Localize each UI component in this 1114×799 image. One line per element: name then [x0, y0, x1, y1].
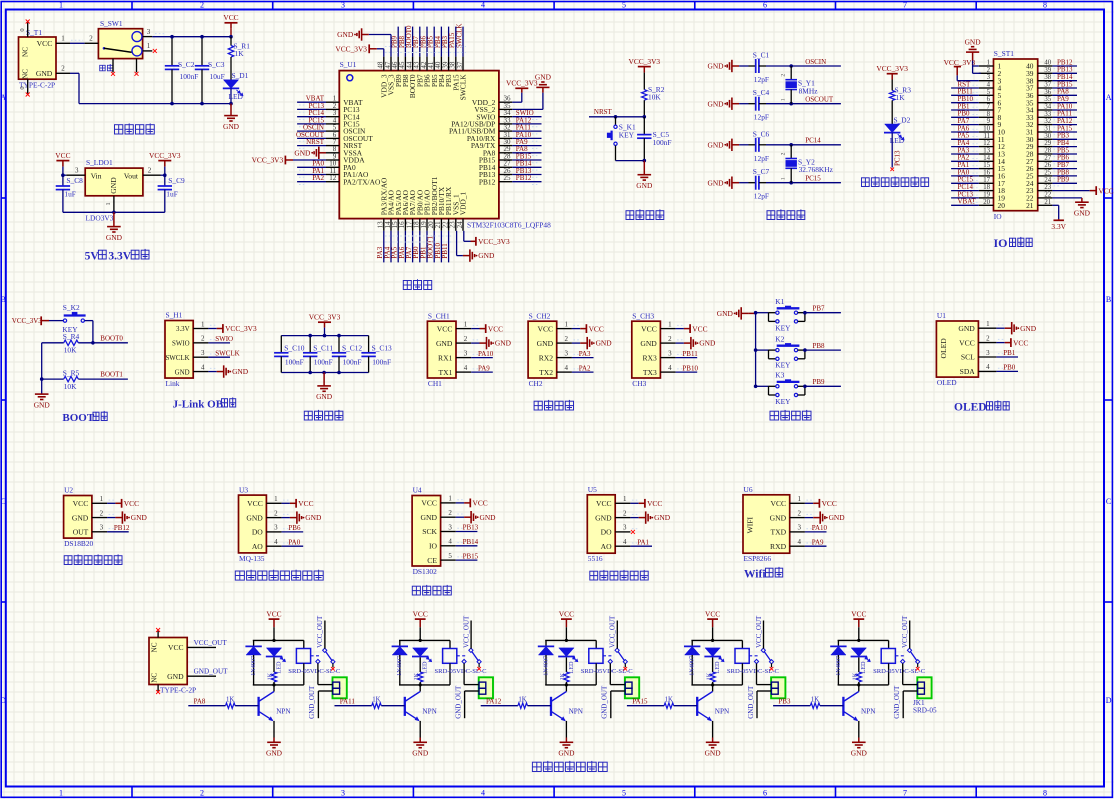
wire VCC_OUT relay 1 [324, 621, 326, 649]
wifi U6 ESP8266 [743, 495, 790, 553]
svg-text:20: 20 [998, 201, 1006, 210]
ground GND boot [35, 394, 49, 399]
svg-text:36: 36 [1044, 89, 1051, 96]
svg-text:S_CH3: S_CH3 [632, 311, 654, 320]
svg-text:VCC: VCC [298, 499, 313, 508]
U1 pin 24 VDD_1 to VCC_3V3 [463, 231, 465, 242]
title temperature module [64, 554, 122, 564]
wire filter bottom rail [281, 372, 368, 374]
ST1 pin 7 [979, 109, 994, 111]
U1 pin 19 PB1/AO [426, 219, 428, 231]
svg-text:GND: GND [305, 513, 322, 522]
svg-text:KEY: KEY [775, 397, 791, 406]
capacitor C12 100nF [338, 336, 340, 353]
svg-text:S_C2: S_C2 [178, 60, 195, 69]
svg-text:Vin: Vin [91, 171, 102, 180]
U1 pin 20 PB2/BOOT1 [433, 219, 435, 231]
svg-text:VCC: VCC [589, 324, 604, 333]
LDO1 pin 1 GND [113, 196, 115, 213]
T2 top stub [157, 631, 159, 638]
title program run indicator [862, 177, 929, 187]
U1 pin 9 VCC_3V3 VDDA [293, 159, 326, 161]
title relay control circuit [532, 761, 607, 772]
svg-text:PA9: PA9 [478, 364, 490, 372]
svg-text:10K: 10K [64, 382, 77, 391]
svg-text:1N4007: 1N4007 [689, 656, 696, 676]
svg-text:GND: GND [294, 148, 311, 157]
svg-text:BOOT1: BOOT1 [100, 371, 123, 379]
wire GND_OUT terminal lower relay 3 [611, 690, 625, 692]
capacitor C13 100nF [368, 336, 370, 353]
terminal block relay 5 [917, 677, 931, 698]
U1 pin 39 PB3 [448, 57, 450, 71]
resistor R4 10K [42, 342, 64, 344]
connector H1 J-Link OB [165, 321, 193, 379]
U1 pin 29 PA8 [499, 152, 512, 154]
svg-text:GND: GND [34, 400, 51, 409]
switch SW1 [98, 29, 142, 59]
U1 pin 1 VBAT [326, 101, 339, 103]
svg-text:S_D1: S_D1 [232, 71, 249, 80]
wire bottom rail [399, 684, 450, 686]
light sensor U5 5516 [587, 495, 615, 553]
relay coil SRD-05VDC relay 3 [595, 640, 597, 648]
svg-text:10K: 10K [648, 92, 661, 101]
title main chip [403, 279, 431, 289]
svg-text:SWCLK: SWCLK [215, 349, 240, 357]
svg-text:21: 21 [1044, 199, 1051, 206]
relay switch contacts 5 [895, 655, 905, 657]
T1 pin 1 VCC [56, 42, 70, 44]
svg-text:GND: GND [558, 749, 575, 758]
svg-text:8MHz: 8MHz [799, 86, 819, 95]
U1 pin 28 PB15 [499, 159, 512, 161]
svg-text:K2: K2 [775, 335, 784, 344]
svg-text:4: 4 [668, 364, 672, 372]
svg-text:U4: U4 [413, 486, 422, 495]
U1 pin 16 PA6/AO [404, 219, 406, 231]
resistor R3 1K [890, 90, 895, 100]
svg-text:12pF: 12pF [754, 192, 769, 201]
ST1 pin 20 [979, 204, 994, 206]
wire T1.1 to SW1.2 [70, 42, 85, 44]
svg-text:VCC_3V3: VCC_3V3 [628, 57, 660, 66]
svg-text:PA2: PA2 [312, 174, 324, 182]
capacitor C3 [201, 37, 203, 66]
svg-text:NRST: NRST [594, 108, 613, 116]
svg-text:1K: 1K [852, 672, 859, 680]
svg-text:4: 4 [481, 788, 485, 797]
svg-text:2: 2 [986, 334, 990, 342]
svg-text:GND: GND [770, 513, 787, 522]
svg-text:GND: GND [412, 749, 429, 758]
svg-text:1: 1 [59, 1, 63, 10]
svg-text:3: 3 [201, 349, 205, 357]
svg-text:PC15: PC15 [805, 175, 821, 183]
wire emitter to gnd relay 2 [419, 721, 421, 738]
ground GND power circuit [230, 104, 232, 116]
svg-text:7: 7 [987, 104, 991, 111]
svg-text:GND: GND [1074, 208, 1091, 217]
svg-text:SWCLK: SWCLK [165, 355, 189, 362]
svg-text:VCC: VCC [73, 499, 89, 508]
svg-text:1: 1 [781, 98, 787, 101]
svg-text:B: B [1, 295, 6, 304]
transistor NPN relay 2 [419, 685, 421, 692]
U1 pin 48 VDD_3 [383, 57, 385, 71]
svg-text:Link: Link [166, 379, 180, 388]
svg-text:1K: 1K [267, 672, 274, 680]
ST1 pin 17 [979, 182, 994, 184]
svg-text:GND: GND [1020, 324, 1037, 333]
svg-text:S_C10: S_C10 [284, 343, 304, 352]
capacitor C5 100nF [643, 117, 645, 135]
svg-text:1: 1 [797, 495, 801, 503]
svg-text:1N4007: 1N4007 [250, 656, 257, 676]
ground GND C4 row [732, 103, 739, 105]
svg-text:WIFI: WIFI [746, 517, 755, 534]
svg-text:1: 1 [147, 42, 151, 50]
svg-text:1: 1 [986, 320, 990, 328]
svg-text:S_U1: S_U1 [340, 60, 357, 69]
U1 pin 12 PA2/TX/AO [326, 181, 339, 183]
ground GND filter [322, 371, 326, 375]
svg-text:GND: GND [223, 122, 240, 131]
svg-text:3: 3 [623, 524, 627, 532]
svg-text:PA15: PA15 [632, 697, 648, 705]
U1 pin 43 PB7 [419, 57, 421, 71]
svg-text:12pF: 12pF [754, 113, 769, 122]
svg-text:OLED: OLED [939, 338, 948, 359]
svg-text:VCC_OUT: VCC_OUT [194, 639, 228, 647]
svg-text:U1: U1 [937, 311, 946, 320]
U1 pin 13 PA3/RX/AO [383, 219, 385, 231]
svg-text:2: 2 [781, 74, 787, 77]
svg-text:Wifi: Wifi [744, 569, 766, 581]
ST1 pin 13 [979, 153, 994, 155]
svg-text:1: 1 [987, 60, 990, 67]
transistor NPN relay 4 [712, 685, 714, 692]
resistor 1K pull relay 3 [565, 657, 567, 672]
svg-text:LDO3V3: LDO3V3 [86, 214, 114, 223]
diode 1N4007 relay 3 [545, 640, 547, 646]
svg-text:8: 8 [987, 111, 991, 118]
svg-text:OUT: OUT [73, 528, 89, 537]
svg-text:1K: 1K [896, 93, 906, 102]
svg-text:KEY: KEY [775, 361, 791, 370]
svg-text:30: 30 [1044, 133, 1051, 140]
relay coil SRD-05VDC relay 5 [888, 640, 890, 648]
svg-text:PB10: PB10 [682, 364, 698, 372]
wire terminal upper relay 4 [756, 663, 758, 684]
svg-text:VCC: VCC [488, 324, 503, 333]
svg-text:IO: IO [429, 542, 438, 551]
svg-text:VBAT: VBAT [958, 198, 977, 206]
ST1 pin 38 [1038, 80, 1053, 82]
svg-text:VCC_OUT: VCC_OUT [901, 615, 909, 648]
svg-text:VCC: VCC [770, 499, 786, 508]
svg-text:BOOT0: BOOT0 [100, 334, 123, 342]
svg-text:4: 4 [987, 82, 991, 89]
svg-text:1uF: 1uF [166, 190, 178, 199]
wire filter top rail [281, 335, 368, 337]
svg-text:S_ST1: S_ST1 [994, 49, 1014, 58]
svg-text:VCC: VCC [537, 324, 553, 333]
wire GND_OUT terminal lower relay 2 [465, 690, 479, 692]
power VCC ldo [56, 160, 69, 162]
svg-text:SDA: SDA [960, 367, 976, 376]
rtc U4 DS1302 [412, 496, 441, 567]
svg-text:34: 34 [1044, 104, 1051, 111]
svg-text:SRD-05: SRD-05 [913, 707, 937, 715]
svg-text:VCC: VCC [168, 643, 184, 652]
ST1 pin 1 [979, 65, 994, 67]
key K2 [49, 320, 63, 322]
svg-text:VCC_3V3: VCC_3V3 [876, 64, 908, 73]
resistor R5 10K [42, 378, 64, 380]
svg-text:NPN: NPN [715, 707, 730, 715]
LED relay 2 [413, 648, 428, 657]
ST1 pin 10 [979, 131, 994, 133]
svg-text:LED: LED [860, 661, 867, 674]
wire emitter to gnd relay 3 [565, 721, 567, 738]
relay switch contacts 2 [457, 655, 467, 657]
T1 pin 0 bottom stub [27, 79, 29, 93]
key K2 [756, 349, 769, 351]
U1 pin 3 PC14 [326, 116, 339, 118]
ground GND above ST1 [966, 51, 979, 53]
svg-text:4: 4 [986, 363, 990, 371]
svg-text:37: 37 [1044, 82, 1051, 89]
relay coil SRD-05VDC relay 2 [449, 640, 451, 648]
svg-text:28: 28 [1044, 148, 1051, 155]
svg-text:RXD: RXD [770, 542, 787, 551]
svg-text:2: 2 [100, 509, 104, 517]
svg-text:16: 16 [983, 169, 990, 176]
svg-text:19: 19 [983, 191, 990, 198]
svg-text:D: D [0, 696, 6, 705]
resistor base 1K relay 2 [335, 705, 372, 707]
ST1 pin 5 [979, 94, 994, 96]
svg-text:U2: U2 [64, 486, 73, 495]
U1 pin 41 PB5 [433, 57, 435, 71]
svg-text:NPN: NPN [569, 707, 584, 715]
svg-text:DS1302: DS1302 [413, 567, 438, 576]
svg-text:VCC: VCC [247, 499, 263, 508]
svg-text:25: 25 [504, 174, 512, 182]
U1 pin 40 PB4 [440, 57, 442, 71]
svg-text:S_C1: S_C1 [753, 51, 770, 60]
svg-text:GND_OUT: GND_OUT [893, 685, 901, 719]
svg-text:GND: GND [495, 339, 512, 348]
svg-text:SCL: SCL [961, 353, 975, 362]
relay coil SRD-05VDC relay 4 [741, 640, 743, 648]
svg-text:OLED: OLED [954, 402, 987, 414]
wire GND_OUT terminal lower relay 5 [903, 690, 917, 692]
wire K2 to BOOT0 [85, 320, 93, 322]
ST1 pin 24 [1038, 182, 1053, 184]
svg-text:GND: GND [707, 140, 724, 149]
title filter circuit [304, 410, 343, 420]
U1 pin 6 OSCOUT [326, 137, 339, 139]
svg-text:S_R4: S_R4 [63, 332, 80, 341]
wire VCC_OUT relay 3 [616, 621, 618, 649]
svg-text:OLED: OLED [937, 378, 957, 387]
svg-text:VCC: VCC [851, 609, 866, 618]
svg-text:NPN: NPN [276, 707, 291, 715]
svg-text:21: 21 [1026, 201, 1034, 210]
svg-text:29: 29 [1044, 140, 1051, 147]
svg-text:2: 2 [200, 788, 204, 797]
svg-text:6: 6 [987, 96, 991, 103]
svg-text:10K: 10K [64, 346, 77, 355]
svg-text:VCC: VCC [473, 499, 488, 508]
svg-text:VCC_3V3: VCC_3V3 [225, 324, 257, 333]
svg-text:GND: GND [421, 513, 438, 522]
svg-text:GND_OUT: GND_OUT [747, 685, 755, 719]
svg-text:8: 8 [1043, 788, 1047, 797]
U1 pin 45 PB8 [404, 57, 406, 71]
svg-text:PB0: PB0 [1003, 364, 1016, 372]
ST1 pin 8 [979, 116, 994, 118]
svg-text:BOOT: BOOT [62, 412, 94, 424]
svg-text:S_D2: S_D2 [894, 115, 911, 124]
svg-text:NPN: NPN [861, 707, 876, 715]
svg-text:VCC_3V3: VCC_3V3 [252, 156, 284, 165]
svg-text:6: 6 [763, 788, 767, 797]
svg-text:PA1: PA1 [637, 538, 649, 546]
svg-text:S_C4: S_C4 [753, 88, 770, 97]
svg-text:100nF: 100nF [653, 138, 672, 147]
svg-text:1: 1 [59, 788, 63, 797]
svg-text:3: 3 [341, 788, 345, 797]
svg-text:VCC: VCC [822, 499, 837, 508]
ground GND C6 row [732, 144, 739, 146]
ground GND relay 1 [267, 742, 281, 747]
U1 pin 7 NRST [326, 145, 339, 147]
svg-text:ESP8266: ESP8266 [744, 554, 772, 563]
ST1 pin1 pin2 to GND above [973, 65, 979, 67]
U1 pin 46 PB9 [397, 57, 399, 71]
svg-text:3: 3 [448, 523, 452, 531]
capacitor C2 [171, 37, 173, 66]
connector CH1 serial [427, 321, 456, 378]
svg-text:A: A [1106, 93, 1112, 102]
svg-text:1: 1 [201, 320, 205, 328]
svg-text:32.768KHz: 32.768KHz [799, 165, 834, 174]
power VCC relay 4 [707, 618, 718, 620]
svg-text:0: 0 [19, 86, 26, 89]
svg-text:2: 2 [464, 335, 468, 343]
svg-text:GND: GND [232, 367, 249, 376]
svg-text:TYPE-C-2P: TYPE-C-2P [160, 686, 196, 695]
svg-text:2: 2 [200, 1, 204, 10]
title gas module [235, 570, 323, 580]
resistor base 1K relay 1 [188, 705, 225, 707]
wire SW1.3 to VCC node [152, 36, 231, 38]
diode 1N4007 relay 4 [691, 640, 693, 646]
power VCC_3V3 led [887, 73, 898, 75]
svg-text:12pF: 12pF [754, 154, 769, 163]
svg-text:7: 7 [903, 788, 907, 797]
wire terminal upper relay 2 [463, 663, 465, 684]
svg-text:1K: 1K [235, 49, 245, 58]
svg-text:38: 38 [1044, 74, 1051, 81]
svg-text:STM32F103C8T6_LQFP48: STM32F103C8T6_LQFP48 [467, 220, 551, 229]
svg-text:GND: GND [699, 339, 716, 348]
ground GND relay 4 [706, 742, 720, 747]
svg-text:PA2: PA2 [579, 364, 591, 372]
svg-text:3: 3 [668, 349, 672, 357]
gnd rail wire [63, 211, 165, 213]
svg-text:U5: U5 [588, 485, 597, 494]
svg-text:GND: GND [717, 309, 734, 318]
ground GND ldo [113, 212, 115, 226]
svg-text:20: 20 [983, 199, 990, 206]
ground GND C1 row [732, 65, 739, 67]
svg-text:LED: LED [275, 661, 282, 674]
svg-text:GND: GND [36, 69, 53, 78]
svg-text:1N4007: 1N4007 [396, 656, 403, 676]
svg-text:27: 27 [1044, 155, 1051, 162]
SW1 pin 3 [143, 36, 153, 38]
svg-text:2: 2 [89, 35, 93, 43]
svg-text:VCC: VCC [641, 324, 657, 333]
wire emitter to gnd relay 1 [273, 721, 275, 738]
svg-text:PA0: PA0 [288, 538, 300, 546]
svg-text:40: 40 [1044, 60, 1051, 67]
svg-text:1N4007: 1N4007 [835, 656, 842, 676]
transistor NPN relay 3 [565, 685, 567, 692]
wire top rail [838, 639, 889, 641]
U1 pin 18 PB0/AO [419, 219, 421, 231]
T2 bottom stub [157, 685, 159, 692]
svg-text:24: 24 [456, 221, 464, 229]
U1 pin1 marker circle [347, 75, 353, 81]
svg-text:1: 1 [464, 320, 468, 328]
svg-text:1: 1 [448, 495, 452, 503]
U1 pin 36 VDD_2 [499, 101, 512, 103]
ST1 pin 21 [1038, 204, 1053, 206]
svg-text:S_LDO1: S_LDO1 [86, 158, 113, 167]
svg-text:1K: 1K [559, 672, 566, 680]
U1 pin 11 PA1/AO [326, 174, 339, 176]
svg-text:SCK: SCK [422, 527, 437, 536]
svg-text:GND: GND [707, 99, 724, 108]
svg-text:IO: IO [994, 212, 1002, 221]
svg-text:S_CH2: S_CH2 [529, 311, 551, 320]
svg-text:SWCLK: SWCLK [455, 24, 463, 49]
title dian-yuan-dian-lu [115, 123, 155, 134]
svg-text:GND: GND [478, 251, 495, 260]
svg-text:VCC: VCC [596, 499, 612, 508]
svg-text:OSCOUT: OSCOUT [805, 96, 834, 104]
svg-text:4: 4 [623, 538, 627, 546]
wire top rail [691, 639, 742, 641]
svg-text:NC: NC [22, 47, 30, 57]
svg-text:2: 2 [274, 509, 278, 517]
wire key rail [755, 313, 757, 387]
svg-text:VCC: VCC [692, 324, 707, 333]
svg-text:2: 2 [448, 509, 452, 517]
svg-text:1: 1 [100, 495, 104, 503]
U1 pin 24 VDD_1 [462, 219, 464, 231]
svg-text:PB8: PB8 [813, 342, 826, 350]
svg-text:S_C8: S_C8 [66, 176, 83, 185]
svg-text:3: 3 [986, 349, 990, 357]
svg-text:GND: GND [851, 749, 868, 758]
title crystal circuit [767, 209, 805, 219]
